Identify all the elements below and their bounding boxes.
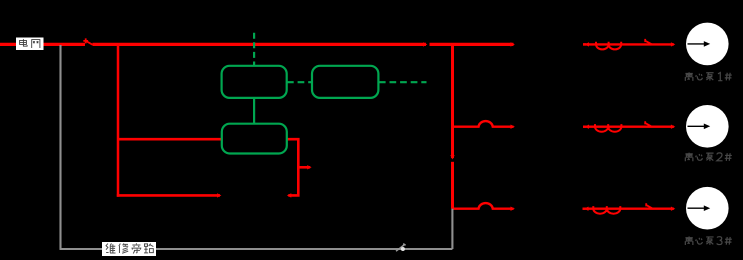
label 离心泵2# — [685, 153, 731, 162]
wire: pump2 branch right section — [583, 125, 674, 127]
wire: vertical distribution bus — [451, 43, 454, 158]
wire: grid feeder left segment — [0, 43, 85, 46]
wire: VFD input drop — [117, 44, 120, 196]
wire: pump3 branch left section with jump — [453, 203, 514, 209]
wire: feeder continuation to bus — [430, 43, 514, 46]
control box U1 — [222, 66, 287, 98]
breaker pump1 — [645, 39, 652, 45]
wire: maintenance bypass left drop — [59, 45, 61, 249]
label 离心泵3# — [685, 236, 731, 245]
wire: pump1 branch right section — [583, 43, 674, 45]
control box U3 (VFD) — [222, 124, 287, 154]
motor M2 (pump 2) — [686, 105, 729, 148]
motor M3 (pump 3) — [686, 187, 729, 230]
overload coils pump2 — [595, 124, 621, 132]
wire: bus lower segment — [451, 162, 454, 209]
wire: pump3 branch right section — [583, 207, 674, 209]
node: grid label 电网 — [16, 38, 44, 51]
motor M1 (pump 1) — [686, 23, 729, 66]
wire: dashed signal drop to U1 — [253, 33, 255, 66]
breaker pump3 — [646, 203, 653, 209]
wire: grid feeder main segment — [93, 43, 427, 46]
node: bypass label 维修旁路 — [102, 242, 156, 256]
switch: bypass isolator — [396, 244, 406, 252]
wire: branch to VFD box — [118, 138, 222, 141]
wire: maintenance bypass right riser — [451, 209, 453, 249]
overload coils pump1 — [596, 42, 621, 50]
wire: VFD output loop — [287, 139, 299, 195]
wire: dashed stub right of U2 — [379, 81, 427, 83]
breaker QF1 (grid incomer) — [83, 38, 92, 44]
wire: pump2 branch left section with jump — [453, 121, 514, 127]
wire: maintenance bypass bottom run — [60, 248, 453, 250]
label 离心泵1# — [685, 72, 731, 81]
overload coils pump3 — [593, 206, 620, 214]
breaker pump2 — [645, 121, 652, 127]
control box U2 — [312, 66, 378, 98]
wire: dashed link U1-U2 — [287, 81, 312, 83]
wire: link U1-U3 — [253, 98, 255, 124]
wire: output tap arrow — [298, 166, 310, 169]
wire: bottom return with arrow — [117, 194, 220, 197]
